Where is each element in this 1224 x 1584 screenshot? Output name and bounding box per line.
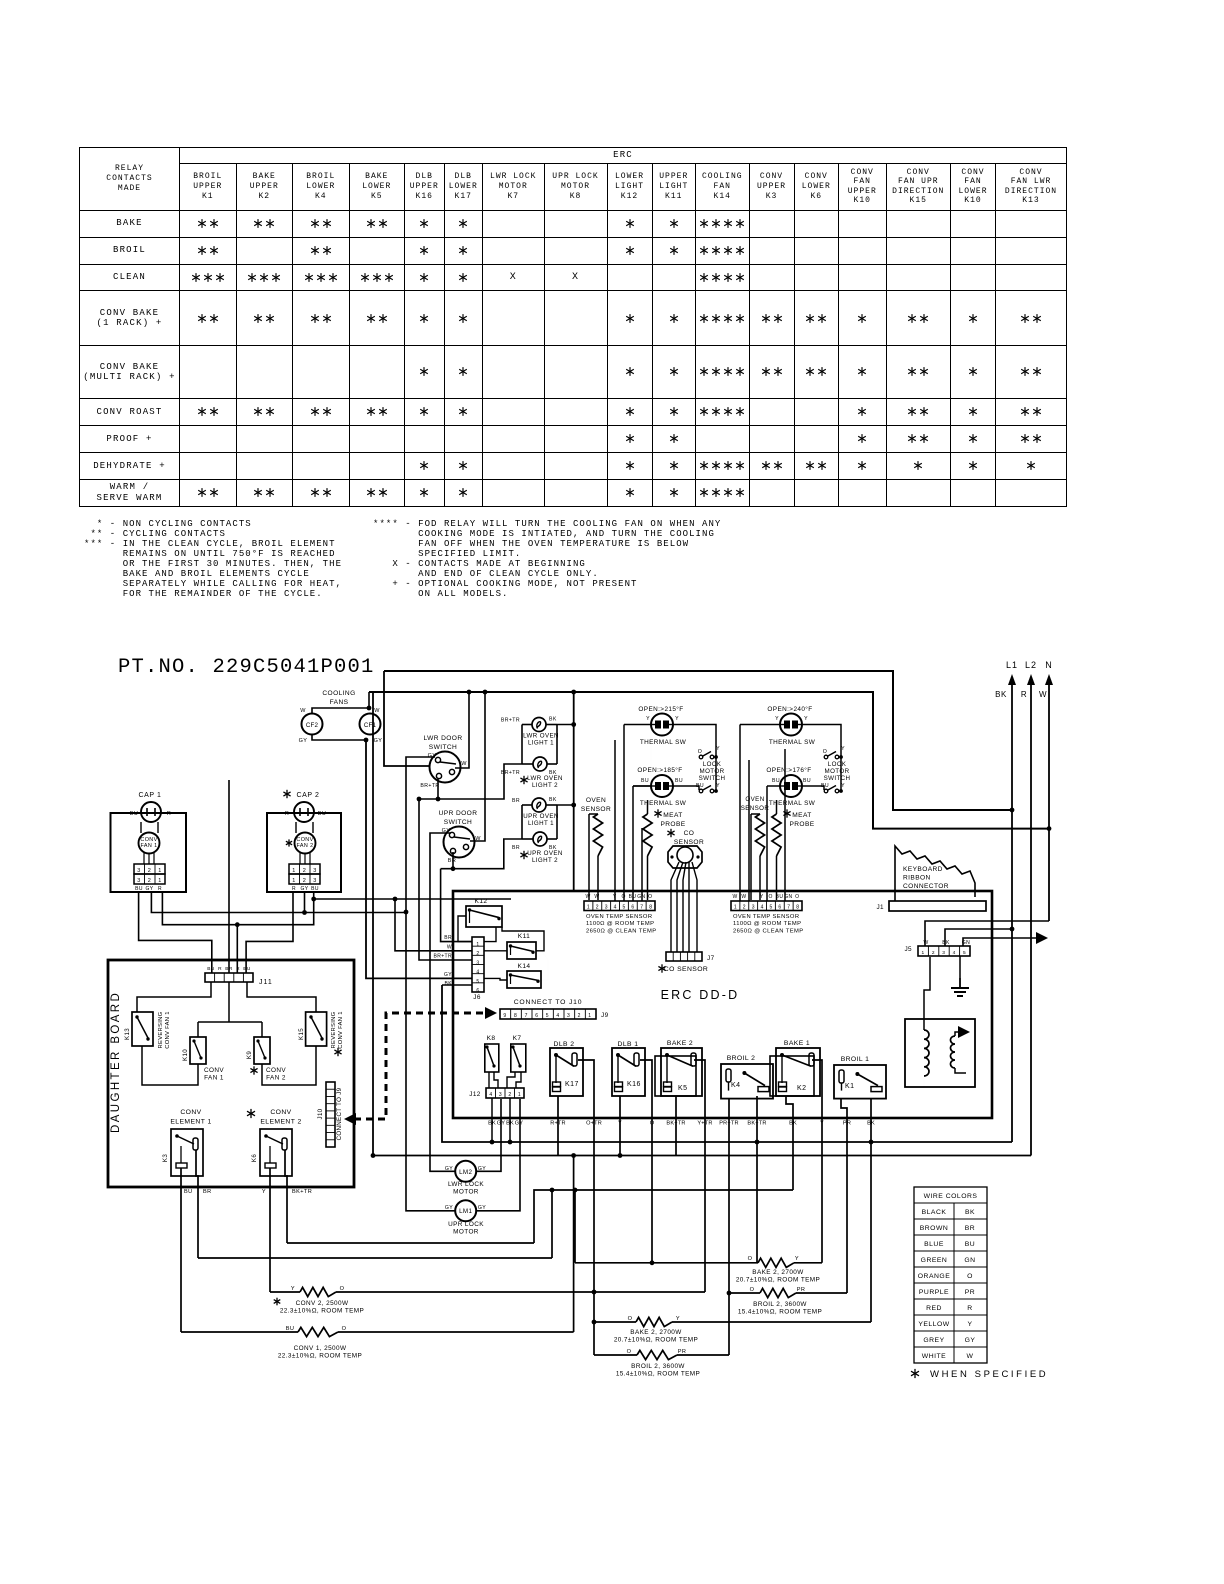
wire BAKE2 BK+TR drop (675, 1096, 677, 1156)
wire GY riser to J6 pin5 (366, 740, 472, 978)
svg-text:SENSOR: SENSOR (741, 805, 770, 812)
svg-text:UPR LOCK: UPR LOCK (448, 1221, 484, 1228)
svg-text:Y: Y (804, 716, 808, 722)
svg-text:GY: GY (428, 753, 437, 759)
svg-text:REVERSING: REVERSING (158, 1011, 164, 1048)
svg-text:1: 1 (158, 878, 161, 884)
heater BAKE 2 upper (575, 1190, 822, 1284)
svg-text:BR: BR (965, 1225, 975, 1232)
svg-text:Y: Y (262, 1189, 266, 1195)
svg-text:O: O (698, 749, 702, 755)
svg-text:BK: BK (549, 717, 557, 723)
svg-text:BK: BK (445, 981, 453, 987)
wire conv1 right riser (573, 1156, 575, 1333)
svg-text:CONV: CONV (266, 1067, 286, 1074)
svg-text:MOTOR: MOTOR (453, 1189, 479, 1196)
wire ts3 to lms2 (802, 725, 841, 792)
svg-text:REVERSING: REVERSING (331, 1011, 337, 1048)
svg-text:PR: PR (965, 1289, 975, 1296)
svg-text:2: 2 (578, 1013, 581, 1019)
svg-text:FAN 1: FAN 1 (204, 1075, 224, 1082)
wire BAKE1 BK+TR drop (756, 1096, 758, 1263)
svg-text:1100Ω @ ROOM TEMP: 1100Ω @ ROOM TEMP (586, 921, 654, 927)
wire co sensor fan (671, 862, 679, 952)
svg-text:CO: CO (684, 830, 695, 837)
wire bundle left connector (623, 725, 625, 902)
connector J10 (317, 1082, 343, 1147)
svg-text:OPEN:>215°F: OPEN:>215°F (638, 705, 683, 713)
svg-text:2650Ω @ CLEAN TEMP: 2650Ω @ CLEAN TEMP (586, 928, 656, 934)
svg-text:CAP 1: CAP 1 (138, 792, 161, 799)
motor LM2 LWR LOCK (445, 1161, 486, 1196)
svg-text:GY: GY (300, 886, 308, 892)
wire fan tops (312, 708, 369, 714)
connector CAP2 pins (289, 864, 320, 892)
keyboard ribbon connector (895, 846, 975, 901)
wire element pins (180, 1168, 182, 1332)
svg-text:22.3±10%Ω, ROOM TEMP: 22.3±10%Ω, ROOM TEMP (278, 1353, 362, 1360)
svg-text:FAN 2: FAN 2 (266, 1075, 286, 1082)
svg-text:CONNECT TO J9: CONNECT TO J9 (336, 1087, 343, 1140)
lock motor switch 2 (821, 746, 850, 793)
svg-text:GY: GY (444, 972, 452, 978)
wire J11 center drop (228, 780, 230, 973)
svg-text:GN: GN (964, 1257, 975, 1264)
svg-text:RIBBON: RIBBON (903, 875, 931, 882)
svg-text:15.4±10%Ω, ROOM TEMP: 15.4±10%Ω, ROOM TEMP (616, 1371, 700, 1378)
ground (959, 956, 961, 978)
svg-text:K2: K2 (797, 1085, 807, 1092)
wire DLB2 contact O+TR riser (578, 1060, 594, 1355)
conv fan 1 motor box (111, 813, 187, 892)
svg-text:Y: Y (760, 894, 764, 900)
meat probe 2 (772, 800, 815, 900)
svg-text:O: O (823, 749, 827, 755)
svg-text:3: 3 (499, 1092, 502, 1098)
svg-text:GY: GY (965, 1337, 976, 1344)
svg-text:1: 1 (158, 868, 161, 874)
svg-text:GY: GY (374, 738, 383, 744)
lock motor switch 1 (696, 746, 725, 793)
svg-text:3: 3 (476, 960, 479, 966)
svg-text:LIGHT 1: LIGHT 1 (528, 740, 554, 747)
oven sensor 2 (741, 796, 770, 900)
connector J12 (469, 1088, 524, 1098)
svg-text:4: 4 (556, 1013, 559, 1019)
svg-text:R: R (1021, 690, 1027, 699)
relay BROIL 2 / K4 (721, 1055, 773, 1099)
relay K13 (124, 1011, 171, 1048)
svg-text:OPEN:>240°F: OPEN:>240°F (767, 705, 812, 713)
svg-text:BR: BR (225, 966, 233, 972)
svg-text:DLB 1: DLB 1 (618, 1041, 639, 1048)
svg-text:CONV 2, 2500W: CONV 2, 2500W (296, 1300, 349, 1307)
svg-text:Y: Y (967, 1321, 972, 1328)
svg-text:BR+TR: BR+TR (501, 770, 520, 776)
svg-text:BROWN: BROWN (920, 1225, 949, 1232)
svg-text:K8: K8 (487, 1035, 496, 1042)
wire BROIL1 PR riser (841, 1099, 847, 1293)
node L2 (1021, 660, 1037, 1156)
svg-text:K7: K7 (513, 1035, 522, 1042)
svg-text:BU: BU (184, 1189, 193, 1195)
wire cap1 leads (140, 822, 142, 833)
lamp LWR OVEN LIGHT 1 (501, 717, 559, 747)
ERC DD-D board (453, 891, 992, 1118)
svg-text:SWITCH: SWITCH (444, 819, 472, 826)
svg-text:L1: L1 (1006, 660, 1018, 670)
wire bus L1 bottom (442, 984, 472, 986)
fan CF1 (360, 708, 383, 744)
svg-text:K12: K12 (475, 898, 488, 905)
svg-text:LIGHT 2: LIGHT 2 (532, 857, 558, 864)
svg-text:BR: BR (203, 1189, 212, 1195)
wire lights rail (573, 692, 575, 890)
wire LM1 left GY riser (406, 757, 455, 1211)
daughter board (108, 960, 354, 1187)
wire bus lock row 2 (198, 1257, 552, 1259)
svg-text:LM1: LM1 (459, 1208, 472, 1215)
svg-text:BAKE 1: BAKE 1 (784, 1040, 810, 1047)
wire J5 pin1 N (925, 921, 1049, 946)
svg-text:MOTOR: MOTOR (453, 1229, 479, 1236)
wire BAKE2 contact Y+TR drop (694, 1060, 705, 1292)
transformer (905, 1019, 975, 1087)
svg-text:Y: Y (775, 716, 779, 722)
svg-text:KEYBOARD: KEYBOARD (903, 866, 943, 873)
svg-text:1: 1 (292, 878, 295, 884)
svg-text:O: O (748, 1256, 753, 1262)
svg-text:CONNECT TO J10: CONNECT TO J10 (514, 999, 583, 1006)
svg-text:K6: K6 (251, 1154, 258, 1162)
svg-text:8: 8 (649, 905, 652, 911)
wire bus lock row 1 (287, 1242, 534, 1244)
svg-text:20.7±10%Ω, ROOM TEMP: 20.7±10%Ω, ROOM TEMP (614, 1337, 698, 1344)
svg-text:Y: Y (675, 716, 679, 722)
svg-text:5: 5 (770, 905, 773, 911)
svg-text:CONV FAN 1: CONV FAN 1 (165, 1011, 171, 1048)
connector oven temp b (731, 894, 803, 934)
svg-text:BK+TR: BK+TR (292, 1189, 312, 1195)
wire J11 to K15 (247, 982, 316, 1012)
wire DLB1 contact O drop (640, 1060, 652, 1263)
relay K8 (485, 1035, 499, 1072)
svg-text:4: 4 (953, 950, 956, 956)
svg-text:DAUGHTER BOARD: DAUGHTER BOARD (110, 991, 122, 1133)
lamp LWR OVEN LIGHT 2 (501, 757, 563, 789)
svg-text:BU: BU (207, 966, 215, 972)
svg-text:BR: BR (444, 935, 452, 941)
svg-text:DLB 2: DLB 2 (554, 1041, 575, 1048)
svg-text:5: 5 (476, 979, 479, 985)
thermal switch 215F (638, 705, 686, 746)
svg-text:1: 1 (292, 868, 295, 874)
svg-text:2: 2 (476, 951, 479, 957)
svg-text:LWR LOCK: LWR LOCK (448, 1181, 484, 1188)
wire J11 to K10 K9 (228, 982, 230, 1022)
svg-text:BU: BU (286, 1326, 295, 1332)
svg-text:BU: BU (675, 778, 683, 784)
svg-text:PURPLE: PURPLE (919, 1289, 949, 1296)
relay BROIL 1 / K1 (834, 1056, 886, 1099)
svg-text:BU: BU (311, 886, 319, 892)
svg-text:O: O (627, 1349, 632, 1355)
relay K14 (507, 963, 541, 988)
svg-text:CONV FAN 1: CONV FAN 1 (338, 1011, 344, 1048)
svg-text:LM2: LM2 (459, 1169, 472, 1176)
svg-text:W: W (447, 945, 452, 951)
svg-text:PR: PR (678, 1349, 687, 1355)
svg-text:BR: BR (512, 798, 520, 804)
svg-text:J9: J9 (601, 1012, 609, 1019)
meat probe 1 (643, 800, 686, 900)
svg-text:PT.NO. 229C5041P001: PT.NO. 229C5041P001 (118, 656, 375, 679)
switch UPR DOOR (439, 810, 482, 864)
wire J6 to K11 (484, 950, 507, 952)
relay K11 (507, 933, 536, 959)
svg-text:FANS: FANS (330, 699, 349, 706)
when specified note (911, 1369, 1048, 1380)
svg-text:J1: J1 (876, 904, 884, 911)
svg-text:BAKE 2: BAKE 2 (667, 1040, 693, 1047)
svg-text:BK: BK (995, 690, 1007, 699)
svg-text:MOTOR: MOTOR (825, 768, 850, 775)
heater CONV 1 2500W (181, 1326, 574, 1360)
wire cap2 leads (295, 822, 297, 833)
wire BK net row (534, 1190, 793, 1243)
svg-text:BU: BU (135, 886, 143, 892)
svg-text:2: 2 (508, 1092, 511, 1098)
svg-text:O: O (342, 1326, 347, 1332)
svg-text:RED: RED (926, 1305, 942, 1312)
wire cap1 BU to J11 (139, 892, 212, 973)
svg-text:GREY: GREY (923, 1337, 944, 1344)
heater CONV 2 2500W (270, 1286, 705, 1315)
svg-text:CO SENSOR: CO SENSOR (664, 966, 708, 973)
svg-text:1: 1 (588, 1013, 591, 1019)
svg-text:CONNECTOR: CONNECTOR (903, 883, 949, 890)
thermal switch 176F (766, 766, 815, 807)
connector J7 (658, 952, 714, 973)
relay BAKE 1 / K2 (770, 1040, 820, 1096)
wire upr door sw BR (452, 852, 454, 869)
wire L2 riser (372, 692, 374, 1156)
svg-text:LOCK: LOCK (703, 761, 722, 768)
svg-text:CONV 1, 2500W: CONV 1, 2500W (294, 1345, 347, 1352)
wire cap2 BU to run (314, 898, 511, 900)
relay K10 (182, 1037, 224, 1082)
wire R1-BU2 bridge (162, 892, 313, 925)
svg-text:OPEN:>176°F: OPEN:>176°F (766, 766, 811, 774)
svg-text:CF2: CF2 (306, 722, 319, 729)
svg-text:BK: BK (942, 940, 950, 946)
svg-text:R: R (218, 966, 222, 972)
svg-text:22.3±10%Ω, ROOM TEMP: 22.3±10%Ω, ROOM TEMP (280, 1308, 364, 1315)
relay K15 (298, 1011, 344, 1056)
thermal switch 185F (637, 766, 686, 807)
wire BROIL2 PR+TR drop (728, 1099, 730, 1355)
svg-text:6: 6 (778, 905, 781, 911)
svg-text:PROBE: PROBE (789, 821, 814, 828)
wire K13 bottom (142, 1046, 198, 1085)
svg-text:BLUE: BLUE (924, 1241, 944, 1248)
svg-text:BAKE 2, 2700W: BAKE 2, 2700W (752, 1269, 804, 1276)
svg-text:R: R (292, 886, 296, 892)
svg-text:THERMAL SW: THERMAL SW (640, 739, 687, 746)
svg-text:K13: K13 (124, 1028, 131, 1040)
wire lwr door sw BR+TR (437, 779, 439, 799)
connector oven temp a (584, 894, 656, 934)
svg-text:Y: Y (676, 1316, 680, 1322)
wire LM1 right to J12 (477, 1099, 521, 1211)
svg-text:J11: J11 (259, 979, 273, 986)
wire J12 drops to L1 bus (491, 1098, 493, 1142)
svg-text:20.7±10%Ω, ROOM TEMP: 20.7±10%Ω, ROOM TEMP (736, 1277, 820, 1284)
svg-text:R: R (967, 1305, 972, 1312)
wire bus L2 bottom (373, 1155, 1031, 1157)
svg-text:3: 3 (137, 868, 140, 874)
connector CAP1 pins (134, 864, 165, 892)
svg-text:L2: L2 (1025, 660, 1037, 670)
svg-text:7: 7 (640, 905, 643, 911)
svg-text:N: N (1045, 660, 1053, 670)
svg-text:W: W (300, 708, 306, 714)
svg-text:1: 1 (921, 950, 924, 956)
wire BAKE1 contact Y riser (812, 1060, 822, 1263)
wire transformer feeds (924, 957, 930, 1030)
svg-text:K11: K11 (518, 933, 530, 940)
svg-text:W: W (374, 708, 380, 714)
svg-text:MEAT: MEAT (663, 812, 682, 819)
wire L1 to lwr door switch (384, 671, 430, 766)
svg-text:2: 2 (148, 878, 151, 884)
svg-text:3: 3 (942, 950, 945, 956)
svg-text:3: 3 (567, 1013, 570, 1019)
svg-text:BU: BU (965, 1241, 975, 1248)
wire J5 pin3 L1 (945, 929, 1012, 946)
svg-text:OVEN TEMP SENSOR: OVEN TEMP SENSOR (733, 914, 799, 920)
wire K8 K7 to J12 (488, 1072, 490, 1088)
svg-text:FAN 2: FAN 2 (297, 843, 314, 849)
svg-text:OVEN TEMP SENSOR: OVEN TEMP SENSOR (586, 914, 652, 920)
svg-text:BR+TR: BR+TR (501, 718, 520, 724)
oven sensor 1 (581, 797, 611, 900)
wire ts2 left (633, 785, 651, 787)
svg-text:J10: J10 (317, 1108, 324, 1119)
svg-text:K16: K16 (627, 1081, 641, 1088)
CO sensor (667, 829, 704, 868)
svg-text:BU: BU (772, 778, 780, 784)
svg-text:SWITCH: SWITCH (699, 775, 726, 782)
svg-text:5: 5 (546, 1013, 549, 1019)
svg-text:BU: BU (243, 966, 251, 972)
svg-text:W: W (461, 761, 467, 767)
wire L1 top feed (384, 671, 1012, 810)
wire W riser to J6 pin2 (395, 899, 472, 951)
heater BROIL 2 lower (594, 1349, 729, 1378)
svg-text:BROIL 1: BROIL 1 (841, 1056, 870, 1063)
node L1 (995, 660, 1018, 1142)
svg-text:SWITCH: SWITCH (824, 775, 851, 782)
svg-text:W: W (585, 894, 590, 900)
svg-text:J6: J6 (473, 994, 481, 1001)
svg-text:CONV: CONV (270, 1109, 291, 1116)
svg-text:GY: GY (299, 738, 308, 744)
svg-text:5: 5 (623, 905, 626, 911)
svg-text:4: 4 (489, 1092, 492, 1098)
svg-text:2650Ω @ CLEAN TEMP: 2650Ω @ CLEAN TEMP (733, 928, 803, 934)
svg-text:W: W (741, 894, 746, 900)
svg-text:W: W (1039, 690, 1047, 699)
svg-text:K17: K17 (565, 1081, 579, 1088)
node N (1039, 660, 1053, 921)
svg-text:O: O (628, 1316, 633, 1322)
svg-text:Y: Y (646, 716, 650, 722)
svg-text:J7: J7 (707, 955, 715, 962)
svg-text:BAKE 2, 2700W: BAKE 2, 2700W (630, 1329, 682, 1336)
fan CF2 (299, 708, 323, 744)
svg-text:1: 1 (476, 942, 479, 948)
svg-text:BU: BU (803, 778, 811, 784)
wire LM2 left GY riser (430, 833, 455, 1171)
svg-text:1100Ω @ ROOM TEMP: 1100Ω @ ROOM TEMP (733, 921, 801, 927)
svg-text:WHITE: WHITE (922, 1353, 946, 1360)
svg-text:R: R (236, 966, 240, 972)
svg-text:Y: Y (795, 1256, 799, 1262)
svg-text:UPR OVEN: UPR OVEN (523, 813, 559, 820)
conv fan 2 motor (286, 833, 316, 854)
svg-text:BR: BR (512, 845, 520, 851)
svg-text:5: 5 (963, 950, 966, 956)
svg-text:ERC DD-D: ERC DD-D (661, 988, 740, 1002)
connector J11 (205, 966, 273, 986)
svg-text:SENSOR: SENSOR (581, 806, 611, 813)
svg-text:BR: BR (448, 858, 456, 864)
svg-text:BLACK: BLACK (922, 1209, 947, 1216)
relay DLB 1 / K16 (612, 1041, 645, 1096)
svg-text:W: W (732, 894, 737, 900)
svg-text:9: 9 (503, 1013, 506, 1019)
svg-text:ELEMENT 2: ELEMENT 2 (260, 1118, 301, 1125)
relay K12 (466, 898, 502, 927)
wire J6 to K14 (484, 978, 507, 980)
svg-text:ORANGE: ORANGE (918, 1273, 950, 1280)
svg-text:LWR OVEN: LWR OVEN (523, 733, 559, 740)
svg-text:W: W (594, 894, 599, 900)
svg-text:GY: GY (145, 886, 153, 892)
svg-text:W: W (967, 1353, 974, 1360)
svg-text:CONV: CONV (180, 1109, 201, 1116)
switch LWR DOOR (420, 735, 467, 789)
svg-text:BU: BU (776, 894, 784, 900)
svg-text:3: 3 (605, 905, 608, 911)
wire J5 GN arrow (963, 938, 1036, 946)
svg-text:4: 4 (761, 905, 764, 911)
svg-text:K3: K3 (162, 1154, 169, 1162)
svg-text:BR+TR: BR+TR (420, 783, 439, 789)
svg-text:O: O (967, 1273, 973, 1280)
svg-text:BU: BU (641, 778, 649, 784)
svg-text:O: O (648, 894, 652, 900)
wire lamp loop (522, 804, 532, 806)
svg-text:OPEN:>185°F: OPEN:>185°F (637, 766, 682, 774)
svg-text:THERMAL SW: THERMAL SW (769, 739, 816, 746)
svg-text:BR+TR: BR+TR (433, 954, 452, 960)
wire K15 bottom (262, 1046, 316, 1085)
svg-text:K9: K9 (246, 1051, 253, 1059)
svg-text:MOTOR: MOTOR (700, 768, 725, 775)
svg-text:K15: K15 (298, 1028, 305, 1040)
